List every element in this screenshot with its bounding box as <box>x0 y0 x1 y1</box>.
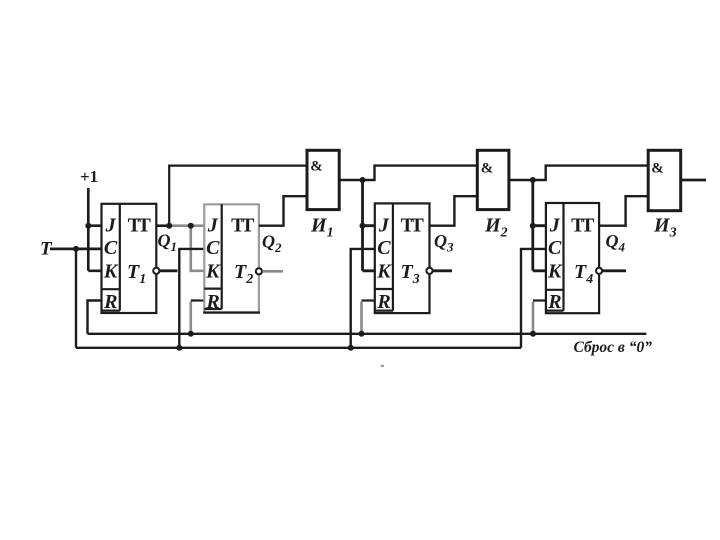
node inverse output bubble T1 <box>153 268 159 274</box>
node inverse output bubble T3 <box>426 268 432 274</box>
svg-text:R: R <box>547 291 561 313</box>
node reset dot T4 <box>530 331 536 337</box>
svg-text:C: C <box>206 237 220 259</box>
wire clock feed vertical <box>75 249 77 348</box>
wire clock line bottom <box>76 347 521 349</box>
node Q1 branch dot to K of T2 <box>188 223 194 229</box>
wire inverse output stub T3 <box>433 269 452 272</box>
node J junction dot T4 <box>530 223 536 229</box>
svg-text:Q4: Q4 <box>606 231 626 255</box>
AND gate I2 box <box>477 150 509 209</box>
wire AND I2 output <box>509 166 648 180</box>
wire I1 output down to J and K of T3 <box>363 180 375 271</box>
wire C branch of T4 <box>521 249 546 348</box>
flip-flop U1 box <box>102 204 157 313</box>
svg-text:R: R <box>205 291 219 313</box>
node T junction dot <box>73 246 79 252</box>
svg-text:R: R <box>376 291 390 313</box>
svg-text:Т1: Т1 <box>127 261 146 287</box>
node J junction dot T3 <box>360 223 366 229</box>
svg-text:И3: И3 <box>653 215 677 241</box>
svg-text:C: C <box>377 237 391 259</box>
wire C branch of T2 <box>179 249 204 348</box>
wire R branch of T3 <box>362 299 375 301</box>
svg-text:Т4: Т4 <box>574 261 593 287</box>
svg-text:Т3: Т3 <box>401 261 420 287</box>
node inverse output bubble T4 <box>596 268 602 274</box>
svg-text:Q2: Q2 <box>262 232 282 256</box>
wire Q1 down to K of T2 <box>191 226 205 271</box>
node I1 output dot <box>360 177 366 183</box>
wire I2 output down to J and K of T4 <box>533 180 546 271</box>
svg-text:И2: И2 <box>484 215 508 241</box>
svg-text:K: K <box>547 260 563 282</box>
wire reset line bottom <box>88 333 647 335</box>
svg-text:J: J <box>105 215 117 237</box>
wire Q1 up to AND I1 top input <box>169 166 307 226</box>
wire inverse output stub T1 <box>160 269 178 272</box>
svg-text:R: R <box>103 291 117 313</box>
svg-text:ТТ: ТТ <box>128 215 152 237</box>
node reset dot T3 <box>359 331 365 337</box>
wire Q1 output line <box>156 224 172 227</box>
wire AND I3 output <box>681 179 706 182</box>
svg-text:Q1: Q1 <box>158 231 178 255</box>
svg-text:K: K <box>103 260 119 282</box>
svg-text:C: C <box>104 237 118 259</box>
wire inverse output stub T2 gray <box>262 270 283 273</box>
wire Q3 to AND I2 bottom input <box>430 196 478 226</box>
wire C branch of T3 <box>351 249 375 348</box>
node Q1 branch dot to AND gate <box>166 223 172 229</box>
svg-text:C: C <box>548 237 562 259</box>
svg-text:&: & <box>310 159 323 175</box>
wire T input horizontal <box>50 247 102 250</box>
svg-text:ТТ: ТТ <box>571 215 595 237</box>
wire AND I1 output <box>339 166 477 180</box>
AND gate I1 box <box>307 150 339 209</box>
node clock dot T3 <box>348 345 354 351</box>
flip-flop U4 box <box>546 203 599 313</box>
svg-text:+1: +1 <box>80 167 98 186</box>
node reset dot T2 <box>188 331 194 337</box>
wire inverse output stub T4 <box>603 269 626 272</box>
flip-flop U3 box <box>375 203 430 313</box>
svg-text:K: K <box>376 260 392 282</box>
node clock dot T2 <box>176 345 182 351</box>
wire R of T1 to reset line <box>88 301 102 334</box>
svg-text:J: J <box>207 215 219 237</box>
wire +1 vertical to J and K of T1 <box>88 188 101 271</box>
svg-text:ТТ: ТТ <box>401 215 425 237</box>
node I2 output dot <box>530 177 536 183</box>
svg-text:&: & <box>481 161 494 177</box>
wire R branch of T2 <box>191 299 205 301</box>
AND gate I3 box <box>648 150 681 210</box>
wire R branch of T4 <box>533 299 546 301</box>
svg-text:K: K <box>205 260 221 282</box>
svg-text:J: J <box>378 215 390 237</box>
svg-text:Сброс в “0”: Сброс в “0” <box>574 339 653 356</box>
svg-text:ТТ: ТТ <box>231 215 255 237</box>
flip-flop U2 box gray <box>203 204 260 312</box>
node inverse output bubble T2 <box>256 268 262 274</box>
svg-text:Q3: Q3 <box>434 231 454 255</box>
svg-text:J: J <box>549 215 561 237</box>
artifact speck <box>381 365 385 367</box>
wire Q4 to AND I3 bottom input <box>599 196 648 226</box>
svg-text:И1: И1 <box>310 215 334 241</box>
node +1 J junction dot <box>85 223 91 229</box>
wire Q2 to AND I1 bottom input <box>259 196 307 226</box>
svg-text:&: & <box>651 161 664 177</box>
svg-text:Т2: Т2 <box>234 261 253 287</box>
